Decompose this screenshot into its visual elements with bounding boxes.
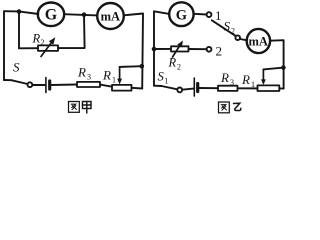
svg-text:R: R	[241, 72, 250, 87]
wire: slider to right vertical (figure 乙)	[263, 68, 283, 70]
svg-text:G: G	[45, 7, 58, 24]
wire: R2 to contact 2	[189, 48, 207, 50]
svg-text:R: R	[220, 70, 229, 85]
wire: S1 to battery	[182, 89, 193, 90]
wire: battery to R3	[51, 84, 77, 87]
node: junction dot on right vertical	[140, 64, 145, 69]
resistor R3 box (figure 乙)	[218, 86, 238, 91]
resistor R2 box (rheostat, figure 甲)	[38, 45, 58, 51]
arrow of rheostat R2 (figure 乙)	[173, 46, 180, 57]
svg-text:2: 2	[216, 44, 223, 59]
wire: left vertical (figure 乙)	[153, 11, 155, 85]
wire: R2 branch left vertical	[18, 12, 20, 49]
wire: R1 to bottom-right corner	[132, 87, 143, 90]
svg-text:S: S	[13, 60, 20, 75]
乙	[234, 103, 241, 110]
svg-text:3: 3	[230, 78, 234, 87]
wire: G to contact 1	[194, 13, 207, 16]
wire: battery to R3 (figure 乙)	[199, 87, 218, 89]
svg-text:2: 2	[231, 27, 235, 36]
wire: top-left to G	[4, 11, 38, 14]
meter mA (figure 甲)	[97, 3, 124, 29]
wire: bottom-left stub (figure 乙)	[154, 85, 162, 87]
resistor R1 box (rheostat with slider, figure 乙)	[258, 85, 280, 91]
svg-text:S: S	[224, 19, 231, 34]
battery cell (figure 乙): short thick plate	[196, 84, 199, 92]
wire: mA to top-right corner and right vertical	[124, 14, 143, 89]
node: junction dot between G and mA	[82, 12, 87, 17]
resistor R1 box (rheostat with slider, figure 甲)	[112, 85, 132, 91]
switch S1 contact circle	[177, 88, 182, 93]
svg-text:2: 2	[41, 38, 45, 47]
svg-text:G: G	[176, 7, 187, 23]
wire: switch to battery	[32, 84, 45, 86]
svg-text:R: R	[77, 65, 86, 80]
slider arrow of R1	[119, 67, 121, 80]
node: junction dot on left vertical (figure 乙)	[152, 47, 157, 52]
label 图乙 (caption, drawn glyphs)	[219, 102, 241, 113]
battery cell (figure 甲): long plate	[45, 78, 47, 93]
svg-text:1: 1	[215, 8, 222, 23]
switch S blade (figure 甲)	[11, 80, 27, 84]
svg-text:2: 2	[177, 63, 181, 72]
图	[219, 102, 230, 113]
wire: R3 to R1 (figure 乙)	[238, 87, 258, 89]
wire: left vertical (figure 甲)	[3, 11, 5, 80]
svg-text:R: R	[168, 56, 177, 70]
图	[69, 102, 80, 113]
switch S2 blade	[212, 20, 236, 36]
svg-text:1: 1	[112, 76, 116, 85]
wire: top-left to G	[154, 11, 169, 14]
svg-text:mA: mA	[248, 35, 267, 49]
contact 2 circle	[207, 47, 212, 52]
wire: mA to right vertical	[270, 40, 284, 88]
svg-text:1: 1	[165, 77, 169, 86]
wire: slider to right vertical	[120, 65, 142, 68]
battery cell (figure 甲): short thick plate	[48, 81, 51, 89]
svg-text:3: 3	[87, 73, 91, 82]
switch S2 pivot circle	[235, 35, 240, 40]
svg-text:mA: mA	[101, 10, 120, 24]
galvanometer G circle (figure 甲)	[38, 3, 64, 27]
svg-text:R: R	[102, 68, 111, 83]
resistor R3 box (figure 甲)	[77, 82, 100, 87]
arrow of rheostat R2	[41, 43, 52, 57]
svg-text:R: R	[32, 32, 41, 46]
wire: R2 branch left horizontal	[19, 47, 38, 49]
label 图甲 (caption, drawn glyphs)	[69, 102, 92, 114]
node: junction dot top-left	[17, 9, 22, 14]
slider arrow of R1 (figure 乙)	[262, 70, 264, 81]
switch S contact circle	[28, 82, 33, 87]
node: junction dot on right vertical (figure 乙)	[281, 65, 286, 70]
svg-text:1: 1	[251, 80, 255, 89]
switch S1 blade	[162, 86, 178, 89]
wire: pivot to mA	[240, 39, 247, 40]
wire: R3 to R1	[100, 85, 112, 87]
galvanometer G circle (figure 乙)	[169, 2, 193, 26]
wire: junction to R2	[154, 48, 171, 50]
resistor R2 box (rheostat, figure 乙)	[171, 46, 189, 51]
svg-text:S: S	[158, 70, 165, 84]
meter mA (figure 乙)	[247, 29, 270, 53]
contact 1 circle	[207, 12, 212, 17]
wire: G to mA	[64, 14, 97, 15]
battery cell (figure 乙): long plate	[193, 78, 195, 96]
wire: R1 to bottom-right corner (figure 乙)	[279, 87, 283, 89]
wire: bottom-left corner stub	[4, 79, 11, 81]
wire: R2 right to upper junction	[58, 15, 85, 48]
甲	[83, 102, 92, 109]
